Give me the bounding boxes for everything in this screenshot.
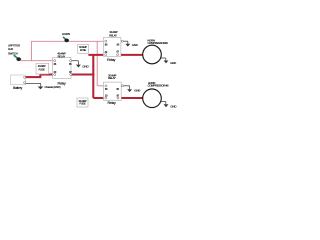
svg-text:COMPRESSOR#1: COMPRESSOR#1 <box>147 41 168 45</box>
svg-text:FUSE: FUSE <box>80 103 86 106</box>
svg-text:40 AMP: 40 AMP <box>38 65 46 68</box>
svg-text:Relay: Relay <box>58 82 66 86</box>
svg-text:30 AMP: 30 AMP <box>108 73 116 77</box>
svg-text:AUX: AUX <box>8 47 13 51</box>
svg-text:RELAY: RELAY <box>109 33 117 37</box>
svg-text:Battery: Battery <box>13 86 22 90</box>
svg-text:GND: GND <box>132 43 138 47</box>
svg-text:GND: GND <box>134 88 140 92</box>
svg-text:30 AMP: 30 AMP <box>109 30 117 34</box>
svg-text:Chassis (GND): Chassis (GND) <box>45 85 61 89</box>
svg-text:RELAY: RELAY <box>58 54 66 58</box>
svg-text:Relay: Relay <box>107 58 115 62</box>
svg-text:UPFITTER: UPFITTER <box>8 43 20 47</box>
svg-text:GND: GND <box>82 65 89 69</box>
svg-text:COMPRESSOR #2: COMPRESSOR #2 <box>148 84 170 88</box>
svg-text:SWITCH: SWITCH <box>8 52 18 56</box>
svg-text:GND: GND <box>170 104 176 108</box>
svg-text:HORN: HORN <box>62 32 70 36</box>
svg-text:GND: GND <box>170 61 176 65</box>
svg-text:RELAY: RELAY <box>108 76 116 80</box>
svg-text:FUSE: FUSE <box>39 68 45 71</box>
svg-text:FUSE: FUSE <box>80 49 86 52</box>
svg-text:Relay: Relay <box>107 101 115 105</box>
